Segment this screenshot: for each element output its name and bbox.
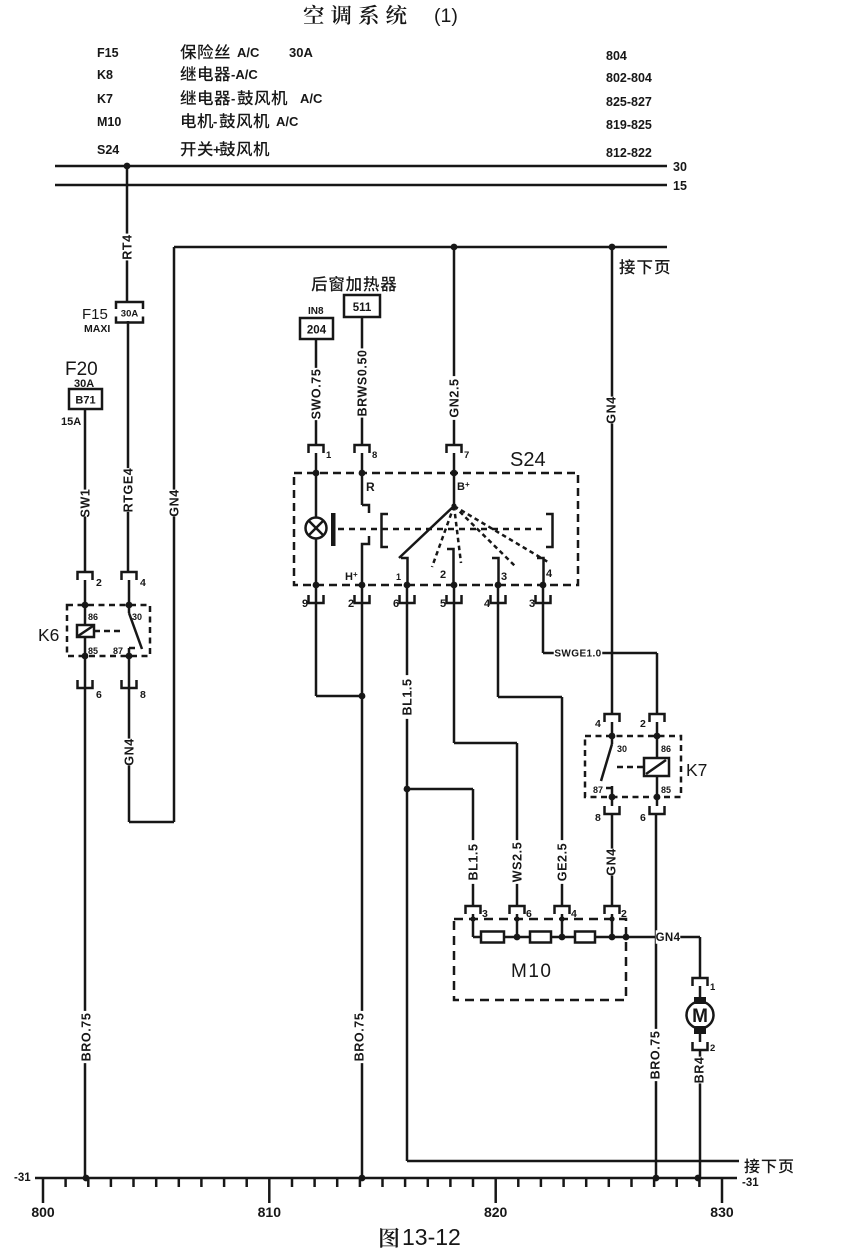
M10 pin 6 bbox=[510, 906, 533, 920]
svg-text:SW1: SW1 bbox=[79, 489, 93, 518]
svg-text:M10: M10 bbox=[511, 961, 552, 982]
fuse F15 30A MAXI bbox=[82, 302, 143, 335]
wire GN2.5 bbox=[447, 247, 462, 445]
S24 bracket left bbox=[382, 514, 389, 547]
title 空调系统 (1) bbox=[304, 5, 458, 27]
svg-text:-A/C: -A/C bbox=[231, 67, 258, 82]
wire to next page (bottom) bbox=[407, 1160, 739, 1163]
svg-text:BR4: BR4 bbox=[693, 1057, 707, 1084]
svg-text:820: 820 bbox=[484, 1204, 508, 1220]
svg-text:-: - bbox=[213, 114, 217, 129]
svg-text:5: 5 bbox=[440, 598, 446, 610]
svg-text:F15: F15 bbox=[82, 306, 108, 323]
S24 center dashed link bbox=[338, 528, 543, 531]
K6 pin 6 bbox=[78, 656, 103, 701]
svg-text:S24: S24 bbox=[97, 143, 119, 157]
caption 图13-12 bbox=[380, 1224, 461, 1250]
junction on branch for GN4 bbox=[609, 244, 616, 251]
svg-text:800: 800 bbox=[31, 1204, 55, 1220]
S24 pin 4 bbox=[484, 585, 506, 610]
label 后窗加热器 bbox=[311, 276, 396, 292]
bus 15 bbox=[55, 179, 687, 193]
svg-text:M: M bbox=[692, 1006, 708, 1027]
svg-text:1: 1 bbox=[396, 572, 401, 582]
svg-text:RTGE4: RTGE4 bbox=[122, 468, 136, 513]
K7 pin 2 bbox=[640, 714, 665, 736]
S24 throw 4 bbox=[537, 558, 553, 585]
svg-text:30: 30 bbox=[132, 612, 142, 622]
svg-text:WS2.5: WS2.5 bbox=[511, 842, 525, 883]
svg-text:A/C: A/C bbox=[237, 45, 260, 60]
S24 rotor fan bbox=[399, 503, 548, 567]
S24 B+ input bbox=[451, 470, 470, 506]
svg-text:2: 2 bbox=[710, 1043, 715, 1054]
M10 pin 4 bbox=[555, 906, 578, 920]
K7 pin 8 bbox=[595, 797, 620, 824]
ground junctions bbox=[83, 1175, 702, 1182]
wire BRO.75 from K6 to ground bus bbox=[79, 680, 94, 1178]
K7 pin 6 bbox=[640, 797, 665, 824]
svg-text:87: 87 bbox=[593, 785, 603, 795]
svg-text:BL1.5: BL1.5 bbox=[401, 678, 415, 715]
S24 pin 8 bbox=[355, 445, 378, 473]
wire BRWS0.50 bbox=[355, 317, 370, 445]
svg-text:R: R bbox=[366, 480, 375, 494]
K6 pin 2 bbox=[78, 572, 103, 605]
K6 pin 4 bbox=[122, 572, 147, 605]
svg-text:BRWS0.50: BRWS0.50 bbox=[356, 349, 370, 416]
svg-text:GN4: GN4 bbox=[656, 932, 681, 944]
S24 lamp bar bbox=[331, 513, 336, 546]
S24 pin 3 bbox=[529, 585, 551, 610]
S24 pin 9 bbox=[302, 585, 324, 610]
svg-text:812-822: 812-822 bbox=[606, 146, 652, 160]
svg-text:810: 810 bbox=[258, 1204, 282, 1220]
K7 coil 86-85 bbox=[617, 733, 671, 801]
svg-text:RT4: RT4 bbox=[121, 234, 135, 259]
svg-text:8: 8 bbox=[595, 812, 601, 824]
svg-text:819-825: 819-825 bbox=[606, 118, 652, 132]
svg-text:(1): (1) bbox=[434, 5, 458, 27]
svg-text:B71: B71 bbox=[75, 395, 95, 407]
junction on branch for GN2.5 bbox=[451, 244, 458, 251]
svg-text:30: 30 bbox=[617, 744, 627, 754]
connector 511 bbox=[344, 295, 380, 317]
svg-text:M10: M10 bbox=[97, 115, 121, 129]
wire GN4 from M10 to motor bbox=[626, 930, 700, 978]
svg-text:804: 804 bbox=[606, 49, 627, 63]
wire BL1.5 from S24 pin6 bbox=[400, 595, 415, 1161]
svg-text:2: 2 bbox=[640, 718, 646, 730]
svg-text:30A: 30A bbox=[289, 45, 313, 60]
switch S24 box bbox=[294, 449, 578, 585]
svg-text:-: - bbox=[231, 91, 235, 106]
svg-text:9: 9 bbox=[302, 598, 308, 610]
wire GE2.5 from S24 pin4 to M10 pin4 bbox=[498, 595, 570, 906]
wire SWGE1.0 from S24 pin3 to K7 bbox=[543, 595, 657, 714]
wire BRO.75 from S24 pin2 to ground bus bbox=[352, 595, 367, 1178]
S24 lamp bbox=[306, 470, 327, 585]
K6 pin 8 bbox=[122, 656, 147, 701]
S24 bracket right bbox=[546, 514, 553, 547]
wire BL1.5 branch to M10 pin3 bbox=[407, 789, 481, 906]
svg-text:GN4: GN4 bbox=[168, 489, 182, 517]
svg-text:-31: -31 bbox=[742, 1177, 759, 1189]
svg-text:MAXI: MAXI bbox=[84, 323, 110, 335]
svg-text:85: 85 bbox=[88, 646, 98, 656]
legend row K8 bbox=[97, 66, 652, 85]
svg-text:-31: -31 bbox=[14, 1172, 31, 1184]
svg-text:1: 1 bbox=[710, 982, 716, 993]
legend row M10 bbox=[97, 113, 652, 132]
ground bus -31 bbox=[14, 1172, 737, 1203]
K6 coil 86-85 bbox=[77, 602, 124, 660]
resistor block M10 box bbox=[454, 919, 626, 1000]
S24 pin 6 bbox=[393, 585, 415, 610]
wire from S24 pin9 bbox=[316, 595, 365, 699]
svg-text:204: 204 bbox=[307, 325, 327, 337]
svg-text:F15: F15 bbox=[97, 46, 119, 60]
svg-text:86: 86 bbox=[88, 612, 98, 622]
svg-text:K7: K7 bbox=[686, 760, 707, 780]
svg-text:511: 511 bbox=[353, 302, 372, 314]
wire GN4 from K6 pin8 up to branch bbox=[122, 680, 174, 822]
svg-text:7: 7 bbox=[464, 450, 469, 461]
svg-text:13-12: 13-12 bbox=[402, 1224, 461, 1250]
S24 H+ node bbox=[313, 570, 366, 588]
motor pin 2 bbox=[693, 1034, 716, 1054]
svg-text:2: 2 bbox=[348, 598, 354, 610]
junction on bus 30 bbox=[124, 163, 131, 170]
svg-text:4: 4 bbox=[484, 598, 491, 610]
S24 pin 1 bbox=[309, 445, 333, 473]
svg-text:87: 87 bbox=[113, 646, 123, 656]
S24 throw 3 bbox=[492, 558, 507, 585]
svg-text:GN4: GN4 bbox=[605, 396, 619, 424]
svg-text:802-804: 802-804 bbox=[606, 71, 652, 85]
svg-text:1: 1 bbox=[326, 450, 332, 461]
relay K6 box bbox=[38, 605, 150, 656]
svg-text:S24: S24 bbox=[510, 449, 546, 471]
svg-text:825-827: 825-827 bbox=[606, 95, 652, 109]
legend row S24 bbox=[97, 141, 652, 160]
svg-text:K6: K6 bbox=[38, 625, 59, 645]
svg-text:8: 8 bbox=[372, 450, 377, 461]
svg-text:GE2.5: GE2.5 bbox=[556, 843, 570, 881]
label 接下页 top bbox=[619, 259, 669, 274]
wire GN4 to K7 bbox=[604, 247, 619, 714]
svg-text:86: 86 bbox=[661, 744, 671, 754]
svg-text:6: 6 bbox=[640, 812, 646, 824]
K6 contact 30-87 bbox=[113, 602, 142, 660]
svg-text:15A: 15A bbox=[61, 416, 81, 428]
wire branch to next page (top) bbox=[167, 247, 667, 822]
svg-text:4: 4 bbox=[140, 577, 146, 589]
svg-text:SWO.75: SWO.75 bbox=[310, 369, 324, 420]
M10 pin 2 bbox=[605, 906, 628, 920]
svg-text:GN2.5: GN2.5 bbox=[448, 378, 462, 417]
motor M bbox=[687, 997, 714, 1034]
S24 pin 2 bbox=[348, 585, 370, 610]
svg-text:K8: K8 bbox=[97, 68, 113, 82]
M10 output wire bbox=[595, 916, 629, 940]
svg-text:85: 85 bbox=[661, 785, 671, 795]
S24 throw 1 bbox=[396, 558, 408, 585]
svg-text:30A: 30A bbox=[121, 309, 139, 320]
svg-text:4: 4 bbox=[595, 718, 601, 730]
svg-text:30: 30 bbox=[673, 160, 687, 174]
svg-text:BRO.75: BRO.75 bbox=[353, 1013, 367, 1062]
fuse F20 30A B71 15A bbox=[61, 359, 102, 428]
wire RT4 bbox=[120, 166, 135, 302]
svg-text:3: 3 bbox=[529, 598, 535, 610]
svg-text:BL1.5: BL1.5 bbox=[467, 843, 481, 880]
svg-text:BRO.75: BRO.75 bbox=[649, 1031, 663, 1080]
wire SW1 bbox=[78, 409, 93, 572]
M10 pin 3 bbox=[466, 906, 489, 920]
ground bus track numbers bbox=[31, 1204, 734, 1220]
S24 bottom junctions bbox=[404, 582, 547, 589]
relay K7 box bbox=[585, 736, 707, 797]
svg-text:SWGE1.0: SWGE1.0 bbox=[554, 649, 601, 660]
svg-text:4: 4 bbox=[546, 568, 553, 580]
wire SWO.75 bbox=[309, 339, 324, 445]
wire BRO.75 from K7 pin6 to ground bus bbox=[648, 814, 663, 1178]
label 接下页 bottom bbox=[742, 1159, 793, 1189]
svg-text:6: 6 bbox=[393, 598, 399, 610]
svg-text:K7: K7 bbox=[97, 92, 113, 106]
svg-text:830: 830 bbox=[710, 1204, 734, 1220]
K7 contact 30-87 bbox=[593, 733, 627, 801]
svg-text:A/C: A/C bbox=[276, 114, 299, 129]
svg-text:IN8: IN8 bbox=[308, 306, 324, 317]
wire RTGE4 bbox=[121, 321, 136, 572]
svg-text:F20: F20 bbox=[65, 359, 98, 380]
svg-text:A/C: A/C bbox=[300, 91, 323, 106]
M10 resistor r3 bbox=[551, 916, 595, 942]
wire GN4 from K7 pin8 to M10 pin2 bbox=[604, 814, 619, 906]
legend row K7 bbox=[97, 90, 652, 109]
svg-text:6: 6 bbox=[96, 689, 102, 701]
svg-text:2: 2 bbox=[440, 569, 446, 581]
svg-text:GN4: GN4 bbox=[123, 738, 137, 766]
motor pin 1 bbox=[693, 978, 717, 997]
M10 resistor r1 bbox=[470, 916, 504, 942]
S24 pin 5 bbox=[440, 585, 462, 610]
svg-text:8: 8 bbox=[140, 689, 146, 701]
M10 resistor r2 bbox=[504, 916, 551, 942]
svg-text:15: 15 bbox=[673, 179, 687, 193]
K7 pin 4 bbox=[595, 714, 620, 736]
svg-text:3: 3 bbox=[501, 571, 507, 583]
legend row F15 bbox=[97, 44, 627, 63]
wire BR4 to ground bus bbox=[692, 1050, 707, 1178]
wire WS2.5 from S24 pin5 to M10 pin6 bbox=[454, 595, 525, 906]
S24 throw 2 bbox=[440, 549, 454, 585]
connector 204 IN8 bbox=[300, 306, 333, 339]
svg-text:2: 2 bbox=[96, 577, 102, 589]
S24 pin 7 bbox=[447, 445, 470, 473]
svg-text:BRO.75: BRO.75 bbox=[80, 1013, 94, 1062]
svg-text:GN4: GN4 bbox=[605, 848, 619, 876]
bus 30 bbox=[55, 160, 687, 174]
S24 contact R bbox=[359, 470, 375, 585]
